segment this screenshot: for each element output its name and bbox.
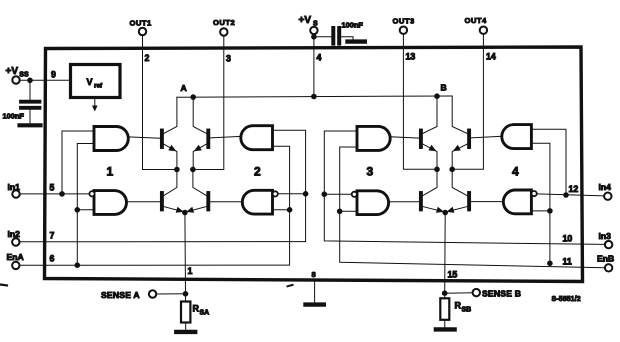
driver 1 label xyxy=(107,164,114,178)
svg-text:OUT3: OUT3 xyxy=(393,17,415,26)
wire EnA net xyxy=(19,146,289,265)
wire to C1 xyxy=(29,80,31,100)
svg-text:OUT4: OUT4 xyxy=(465,16,488,25)
svg-text:1: 1 xyxy=(188,266,193,276)
terminal In2 xyxy=(12,238,19,245)
junction +VS on rail xyxy=(311,94,317,100)
junction In1 branch xyxy=(59,191,65,197)
wire EnA to gate2 lower xyxy=(273,209,290,211)
svg-text:B: B xyxy=(441,83,447,93)
wire G3u output to Q5 base xyxy=(390,137,419,138)
and gate G3 lower (inverting input) xyxy=(352,191,389,215)
svg-text:R: R xyxy=(193,304,200,314)
pin 6 label xyxy=(50,254,55,264)
voltage reference U1 Vref xyxy=(71,65,121,98)
and gate G1 lower (inverting input) xyxy=(89,191,126,215)
node B label xyxy=(441,83,447,93)
svg-text:12: 12 xyxy=(569,184,579,194)
ground sense B xyxy=(436,327,455,331)
transistor Q2 (bridge A upper right) xyxy=(193,97,208,169)
wire G1l output to Q3 base xyxy=(127,201,161,203)
node OUT3 xyxy=(434,167,440,173)
resistor RSB xyxy=(440,298,449,320)
resistor RSA xyxy=(181,302,190,323)
wire G1u output to Q1 base xyxy=(128,137,160,138)
svg-text:100nF: 100nF xyxy=(3,112,25,121)
svg-text:SENSE B: SENSE B xyxy=(482,289,521,299)
wire OUT3 net xyxy=(403,34,437,169)
wire to RSB xyxy=(444,293,446,298)
wire In3 to gate3 lower bubble xyxy=(324,193,351,195)
wire EnB to gate4 lower xyxy=(533,210,550,212)
wire sense A terminal xyxy=(156,293,185,295)
terminal EnA label xyxy=(7,252,24,262)
svg-text:In3: In3 xyxy=(599,231,612,241)
svg-text:OUT1: OUT1 xyxy=(130,19,153,28)
wire EnB to gate4 inputs xyxy=(531,143,550,263)
wire EnB net xyxy=(340,147,605,268)
svg-text:SA: SA xyxy=(200,310,210,317)
svg-text:10: 10 xyxy=(563,234,573,244)
driver 4 label xyxy=(512,164,519,178)
junction In2 bubble tap xyxy=(303,191,309,197)
and gate G1 upper xyxy=(94,127,128,151)
stray mark bottom left xyxy=(1,284,7,287)
svg-text:A: A xyxy=(181,83,187,93)
driver 2 label xyxy=(254,164,261,178)
junction sense B xyxy=(442,290,448,296)
svg-text:6: 6 xyxy=(50,254,55,264)
wire G4u output to Q6 base xyxy=(471,136,502,138)
svg-text:In4: In4 xyxy=(599,182,612,192)
svg-text:4: 4 xyxy=(317,53,322,63)
terminal OUT3 xyxy=(400,27,407,34)
svg-text:15: 15 xyxy=(448,270,458,280)
node OUT1 xyxy=(174,167,180,173)
pin 1 label xyxy=(188,266,193,276)
wire pin 1 sense A xyxy=(184,213,187,294)
pin 10 label xyxy=(563,234,573,244)
node sense A emitters xyxy=(182,210,188,216)
wire EnB to gate3 lower xyxy=(340,210,357,212)
svg-text:8: 8 xyxy=(312,270,316,279)
wire +VS to C2 xyxy=(314,36,331,38)
ground pin 8 xyxy=(306,302,324,306)
junction +VS cap xyxy=(311,34,317,40)
svg-text:4: 4 xyxy=(512,164,519,178)
terminal OUT4 xyxy=(480,27,487,34)
wire pin 8 ground xyxy=(314,281,316,303)
terminal In1 xyxy=(12,190,19,197)
terminal OUT4 label xyxy=(465,16,488,25)
svg-text:SB: SB xyxy=(462,307,472,314)
chip boundary box xyxy=(45,47,583,282)
and gate G4 upper xyxy=(502,125,532,149)
svg-text:SENSE A: SENSE A xyxy=(101,290,140,300)
wire C2 to ground xyxy=(341,37,353,40)
transistor Q4 (bridge A lower right) xyxy=(186,169,208,212)
junction EnB gate3 lower xyxy=(337,209,343,215)
pin 3 label xyxy=(226,54,231,64)
and gate G4 lower (inverting input) xyxy=(503,190,536,214)
svg-text:3: 3 xyxy=(226,54,231,64)
node sense B emitters xyxy=(442,210,448,216)
terminal In2 label xyxy=(8,229,21,239)
SENSE B label xyxy=(482,289,521,299)
terminal +VS xyxy=(310,27,317,34)
capacitor C2 plates xyxy=(333,28,339,44)
pin 8 label xyxy=(312,270,316,279)
wire G2l output to Q4 base xyxy=(210,201,242,203)
wire In4 net xyxy=(538,194,605,196)
arrow Vref output xyxy=(92,98,98,112)
resistor RSA label xyxy=(193,304,210,317)
transistor Q7 (bridge B lower left) xyxy=(421,169,444,213)
svg-text:2: 2 xyxy=(254,164,261,178)
terminal OUT2 xyxy=(220,28,227,35)
transistor Q6 (bridge B upper right) xyxy=(452,96,469,169)
svg-text:14: 14 xyxy=(486,52,496,62)
junction +VSS cap xyxy=(27,78,33,84)
resistor RSB label xyxy=(455,301,472,314)
svg-text:+V: +V xyxy=(299,15,312,26)
transistor Q8 (bridge B lower right) xyxy=(446,169,469,213)
capacitor C1 100nF label xyxy=(3,112,25,121)
svg-text:ref: ref xyxy=(94,83,103,90)
wire In2 to gate2 lower bubble xyxy=(278,193,306,195)
junction In4 branch xyxy=(563,192,569,198)
wire pin 15 sense B xyxy=(444,213,447,294)
svg-text:2: 2 xyxy=(145,53,150,63)
svg-text:3: 3 xyxy=(367,164,374,178)
terminal OUT2 label xyxy=(213,18,235,27)
node A label xyxy=(181,83,187,93)
pin 13 label xyxy=(406,52,416,62)
wire In4 to gate4 upper xyxy=(531,129,566,195)
terminal SENSE A xyxy=(149,290,156,297)
and gate G2 upper xyxy=(241,126,273,150)
svg-text:S-5851/2: S-5851/2 xyxy=(552,296,581,303)
wire +VSS to Vref xyxy=(20,79,71,81)
ground for C1 xyxy=(20,123,41,127)
svg-text:9: 9 xyxy=(51,70,56,80)
junction EnA gate2 lower xyxy=(287,207,293,213)
and gate G2 lower (inverting input) xyxy=(242,190,278,214)
wire C1 to ground xyxy=(29,110,31,124)
wire EnA to gate1 lower xyxy=(77,209,94,211)
junction EnB gate4 lower xyxy=(547,208,553,214)
svg-text:OUT2: OUT2 xyxy=(213,18,235,27)
svg-text:13: 13 xyxy=(406,52,416,62)
terminal In1 label xyxy=(8,182,21,192)
svg-text:100nF: 100nF xyxy=(342,21,364,30)
wire In1 to gate1 upper xyxy=(62,131,94,194)
junction EnA gate1 lower xyxy=(75,207,81,213)
svg-text:11: 11 xyxy=(563,257,572,267)
ground sense A xyxy=(176,330,195,334)
stray mark below border xyxy=(288,285,293,286)
node OUT4 xyxy=(449,167,455,173)
terminal OUT1 xyxy=(139,28,146,35)
terminal In4 label xyxy=(599,182,612,192)
svg-text:In2: In2 xyxy=(8,229,21,239)
svg-text:EnB: EnB xyxy=(597,254,614,264)
pin 15 label xyxy=(448,270,458,280)
driver 3 label xyxy=(367,164,374,178)
terminal +VSS label xyxy=(6,66,29,79)
wire OUT1 net xyxy=(143,35,177,169)
wire OUT4 net xyxy=(452,34,483,169)
wire In1 net xyxy=(20,193,89,195)
terminal In4 xyxy=(604,193,611,200)
wire sense B terminal xyxy=(445,292,473,294)
pin 11 label xyxy=(563,257,572,267)
terminal +VS label xyxy=(299,15,319,28)
wire G4l output to Q8 base xyxy=(471,201,503,203)
svg-text:7: 7 xyxy=(50,231,55,241)
wire RSA to ground xyxy=(185,323,187,331)
svg-text:1: 1 xyxy=(107,164,114,178)
pin 2 label xyxy=(145,53,150,63)
wire to RSA xyxy=(185,294,187,302)
terminal In3 label xyxy=(599,231,612,241)
junction sense A xyxy=(183,291,189,297)
ground for C2 xyxy=(348,39,365,43)
pin 4 label xyxy=(317,53,322,63)
terminal In3 xyxy=(605,241,612,248)
capacitor C2 100nF label xyxy=(342,21,364,30)
capacitor C1 plates xyxy=(21,102,40,108)
terminal +VSS xyxy=(12,76,19,83)
wire +VS down xyxy=(313,34,315,96)
terminal OUT1 label xyxy=(130,19,153,28)
pin 12 label xyxy=(569,184,579,194)
terminal SENSE B xyxy=(473,289,480,296)
junction In3 bubble tap xyxy=(322,191,328,197)
svg-text:SS: SS xyxy=(19,72,29,79)
svg-text:V: V xyxy=(87,77,93,87)
wire OUT2 net xyxy=(193,36,224,170)
terminal OUT3 label xyxy=(393,17,415,26)
pin 14 label xyxy=(486,52,496,62)
and gate G3 upper xyxy=(357,126,390,150)
wire +VS rail xyxy=(177,96,452,97)
wire In2 net xyxy=(19,130,305,242)
transistor Q3 (bridge A lower left) xyxy=(162,170,184,213)
transistor Q5 (bridge B upper left) xyxy=(421,96,437,169)
SENSE A label xyxy=(101,290,140,300)
terminal EnB xyxy=(605,264,612,271)
wire G2u output to Q2 base xyxy=(210,136,241,138)
wire G3l output to Q7 base xyxy=(389,201,420,203)
svg-text:5: 5 xyxy=(50,183,55,193)
junction EnB right branch xyxy=(547,261,553,267)
transistor Q1 (bridge A upper left) xyxy=(162,97,177,169)
wire EnA to gate1 inputs xyxy=(77,144,94,266)
pin 7 label xyxy=(50,231,55,241)
figure code S-5851/2 xyxy=(552,296,581,303)
svg-text:+V: +V xyxy=(6,66,19,77)
svg-text:EnA: EnA xyxy=(7,252,24,262)
wire In3 net xyxy=(324,131,605,244)
wire RSB to ground xyxy=(444,320,446,328)
terminal EnA xyxy=(12,262,19,269)
svg-text:R: R xyxy=(455,301,462,311)
pin 5 label xyxy=(50,183,55,193)
pin 9 label xyxy=(51,70,56,80)
node B xyxy=(434,93,440,99)
terminal EnB label xyxy=(597,254,614,264)
node OUT2 xyxy=(190,167,196,173)
node A xyxy=(190,94,196,100)
junction EnA left branch xyxy=(75,262,81,268)
